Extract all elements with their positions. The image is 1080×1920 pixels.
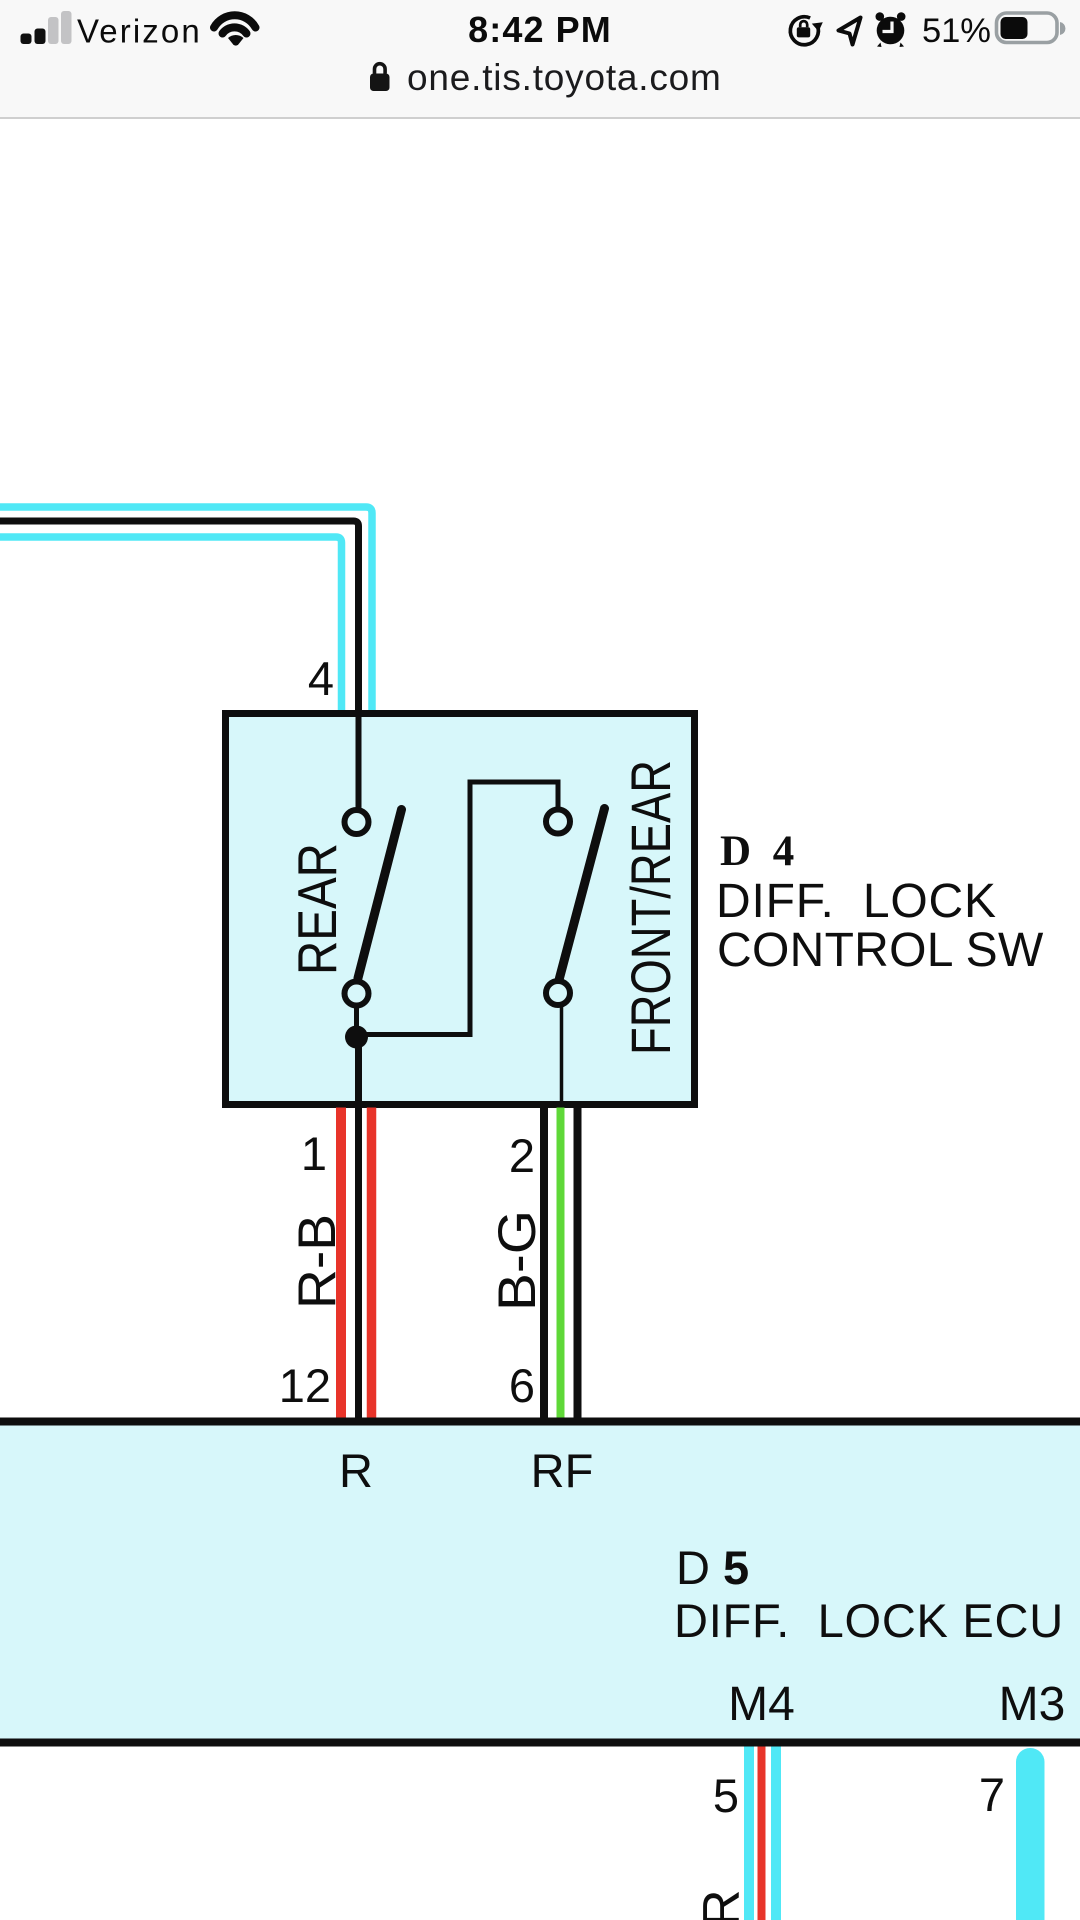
wire L-R red stripe xyxy=(758,1747,766,1920)
svg-text:R: R xyxy=(693,1889,751,1920)
svg-text:M3: M3 xyxy=(999,1678,1066,1731)
svg-text:R-B: R-B xyxy=(288,1214,347,1309)
wire L-R left cyan xyxy=(744,1747,754,1920)
wifi icon xyxy=(214,15,256,33)
battery icon xyxy=(997,13,1058,43)
svg-text:B-G: B-G xyxy=(488,1210,547,1311)
svg-text:8:42 PM: 8:42 PM xyxy=(468,9,612,50)
switch box D4 xyxy=(226,714,695,1105)
svg-text:FRONT/REAR: FRONT/REAR xyxy=(619,760,682,1055)
svg-text:5: 5 xyxy=(713,1769,739,1822)
svg-text:6: 6 xyxy=(509,1359,535,1412)
wire L-B outer cyan xyxy=(0,507,372,712)
right switch upper contact xyxy=(546,810,570,834)
wire black center xyxy=(0,521,359,811)
wire below junction to ECU xyxy=(355,1040,362,1424)
wire R-B right red xyxy=(367,1108,377,1422)
svg-text:Verizon: Verizon xyxy=(77,13,202,50)
rotation lock icon xyxy=(790,17,818,45)
left switch lower contact xyxy=(345,982,369,1006)
wire B-G green stripe xyxy=(557,1108,565,1422)
svg-text:2: 2 xyxy=(509,1129,535,1182)
svg-text:one.tis.toyota.com: one.tis.toyota.com xyxy=(407,57,722,98)
wire B-G left black xyxy=(540,1108,548,1422)
left switch upper contact xyxy=(345,810,369,834)
status bar background xyxy=(0,0,1080,118)
svg-text:CONTROL SW: CONTROL SW xyxy=(717,924,1044,977)
ECU box D5 xyxy=(0,1422,1080,1743)
svg-text:DIFF. LOCK ECU: DIFF. LOCK ECU xyxy=(674,1594,1064,1647)
right switch blade xyxy=(560,809,605,979)
thick L wire from M3-7 xyxy=(1016,1748,1045,1920)
svg-text:4: 4 xyxy=(308,652,334,705)
left switch blade xyxy=(358,810,402,979)
svg-text:M4: M4 xyxy=(728,1678,795,1731)
junction dot xyxy=(345,1026,368,1049)
wire R-B left red xyxy=(336,1108,346,1422)
svg-text:51%: 51% xyxy=(922,12,991,50)
svg-text:DIFF. LOCK: DIFF. LOCK xyxy=(716,875,997,928)
wire pin4 to upper contact xyxy=(356,712,362,811)
wire L-B inner cyan xyxy=(0,537,342,712)
alarm clock xyxy=(876,12,906,47)
url bar lock xyxy=(370,74,390,92)
right switch lower contact xyxy=(546,981,570,1005)
svg-text:R: R xyxy=(339,1444,373,1497)
wire below right contact xyxy=(560,1005,564,1105)
svg-text:D 4: D 4 xyxy=(720,828,800,875)
nav arrow xyxy=(839,18,861,45)
wire contact to junction xyxy=(354,1005,359,1030)
signal bars xyxy=(21,11,72,44)
svg-text:1: 1 xyxy=(301,1127,327,1180)
svg-text:7: 7 xyxy=(979,1768,1005,1821)
svg-text:RF: RF xyxy=(531,1444,594,1497)
wire L-R right cyan xyxy=(771,1747,781,1920)
svg-text:REAR: REAR xyxy=(286,843,348,975)
svg-text:12: 12 xyxy=(279,1359,331,1412)
jumper wire xyxy=(357,782,559,1035)
wire B-G right black xyxy=(574,1108,582,1422)
svg-text:D 5: D 5 xyxy=(676,1541,749,1594)
